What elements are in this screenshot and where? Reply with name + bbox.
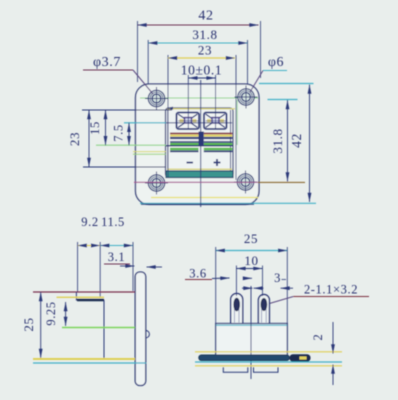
body top line maroon bbox=[33, 291, 135, 293]
svg-text:31.8: 31.8 bbox=[270, 128, 285, 153]
ext vertical 133 bbox=[132, 242, 134, 291]
svg-text:3.1: 3.1 bbox=[108, 250, 125, 264]
pin centerline 1 bbox=[235, 266, 237, 297]
dimension 31.8 right bbox=[270, 100, 288, 182]
ext vertical pin left center bbox=[187, 75, 189, 129]
ext vertical 77.6 bbox=[77, 242, 79, 292]
underline 2-1.1x3.2 bbox=[293, 296, 369, 298]
ext vertical pin right center bbox=[215, 75, 217, 129]
side plate bbox=[135, 272, 146, 386]
svg-text:9.25: 9.25 bbox=[44, 301, 58, 325]
rear box bottom dark bar bbox=[77, 299, 104, 302]
plate bottom edge bbox=[141, 203, 254, 205]
right cyan ext line plate top bbox=[259, 83, 314, 85]
arrow to plate right face bbox=[147, 266, 163, 268]
svg-text:7.5: 7.5 bbox=[112, 124, 126, 141]
svg-text:2-1.1×3.2: 2-1.1×3.2 bbox=[304, 283, 358, 297]
ext vertical body left bbox=[215, 247, 217, 324]
body box bbox=[216, 324, 288, 356]
plate outline bbox=[136, 84, 260, 205]
line through terminal centers bbox=[166, 122, 232, 124]
arrow pair at 288 bbox=[242, 287, 253, 289]
flange body bbox=[199, 355, 289, 361]
cyan ext line plate bottom bbox=[140, 202, 316, 204]
cyan line under body top bbox=[216, 324, 287, 326]
dimension 42 right bbox=[289, 85, 310, 203]
arrow at right 288 bbox=[281, 287, 294, 289]
svg-text:25: 25 bbox=[244, 231, 258, 246]
left ext line bottom (y167) bbox=[83, 166, 166, 168]
pin 2 lug bbox=[258, 295, 269, 324]
yellow dot in blob bbox=[300, 357, 307, 360]
underline 3.6 bbox=[185, 279, 212, 281]
svg-text:10: 10 bbox=[244, 253, 258, 268]
dimension 15 left bbox=[88, 110, 106, 145]
block top yellow tint bbox=[167, 108, 235, 110]
svg-text:3.6: 3.6 bbox=[189, 267, 206, 281]
terminal center horizontal ticks bbox=[178, 120, 198, 122]
dimension 2 bbox=[311, 322, 333, 385]
svg-text:31.8: 31.8 bbox=[192, 27, 217, 42]
dimension 10 +/- 0.1 bbox=[181, 63, 222, 79]
yellow line above bottom bar bbox=[167, 168, 232, 170]
svg-text:2: 2 bbox=[311, 334, 325, 341]
dimension line 10 bbox=[236, 268, 262, 270]
terminal clip right bbox=[204, 113, 227, 130]
svg-text:42: 42 bbox=[198, 9, 213, 24]
green ext line mid bbox=[96, 144, 166, 146]
yellow-green small ext lines bbox=[133, 151, 166, 153]
vertical centerline of top view bbox=[200, 80, 202, 207]
pin centerline 2 bbox=[262, 266, 264, 297]
svg-text:15: 15 bbox=[88, 121, 102, 135]
svg-text:10±0.1: 10±0.1 bbox=[181, 63, 222, 78]
green mid line bbox=[62, 327, 135, 329]
plate bump bbox=[146, 331, 150, 338]
svg-text:25: 25 bbox=[21, 317, 36, 331]
ext vertical 23 left bbox=[167, 55, 169, 177]
ext vertical 100.2 bbox=[99, 242, 101, 298]
dimension 7.5 left bbox=[112, 123, 130, 145]
ext vertical body right bbox=[286, 247, 288, 324]
yellow line above bottom screws bbox=[151, 197, 258, 199]
svg-text:11.5: 11.5 bbox=[101, 215, 125, 229]
ext vertical 23 right bbox=[235, 55, 237, 180]
dimension 9.25 bbox=[44, 301, 66, 326]
center vertical line bbox=[250, 286, 252, 379]
arrow to plate left face bbox=[120, 265, 135, 267]
magenta line through bottom screws bbox=[134, 181, 258, 183]
svg-text:23: 23 bbox=[67, 132, 82, 146]
block bottom bar bbox=[166, 171, 233, 178]
center dark column bbox=[199, 132, 204, 147]
screw hole TL bbox=[145, 87, 168, 110]
foot right bbox=[254, 367, 279, 372]
cyan line through flange bbox=[195, 361, 342, 363]
foot left bbox=[223, 367, 248, 372]
body bottom cyan line bbox=[33, 362, 146, 364]
dimension line 11.5 bbox=[100, 245, 133, 247]
screw hole BR bbox=[234, 171, 257, 194]
screw hole TR bbox=[235, 86, 258, 109]
small arrow at block top left bbox=[167, 107, 174, 110]
dimension line 25 bbox=[216, 250, 288, 252]
rear box yellow line bbox=[57, 296, 105, 298]
front box left edge bbox=[103, 300, 105, 360]
dimension 23 left bbox=[67, 110, 89, 167]
block right 3d edge bbox=[230, 110, 232, 172]
dimension 42 top bbox=[138, 9, 261, 83]
label phi 3.7 bbox=[83, 55, 153, 94]
label phi 6 bbox=[250, 55, 287, 92]
rear box left edge bbox=[75, 292, 77, 301]
arrow 3.6 to pin bbox=[212, 277, 230, 280]
dimension 31.8 top bbox=[148, 27, 247, 84]
spring stripes left stack bbox=[170, 133, 199, 153]
svg-text:φ3.7: φ3.7 bbox=[93, 55, 121, 70]
spring stripes right stack bbox=[204, 133, 233, 153]
terminal clip left bbox=[177, 113, 200, 130]
dimension 25 left bbox=[21, 292, 41, 358]
small ext mark near 3 bbox=[282, 279, 287, 281]
left ext line top (y110) bbox=[82, 109, 172, 111]
block mid line bbox=[166, 145, 233, 147]
dimension line 9.2 bbox=[78, 245, 101, 247]
dimension 23 top bbox=[168, 43, 235, 59]
screw hole BL bbox=[145, 172, 168, 195]
flange yellow top line bbox=[195, 351, 342, 353]
block left inner edge bbox=[167, 110, 169, 172]
leader to pin hole bbox=[266, 297, 293, 305]
svg-text:3: 3 bbox=[274, 271, 281, 285]
right cyan ext line screw center bbox=[268, 99, 298, 101]
green line through top screws bbox=[140, 97, 258, 99]
cyan ext of terminal center line bbox=[124, 122, 166, 124]
svg-text:9.2: 9.2 bbox=[81, 215, 98, 229]
svg-text:42: 42 bbox=[289, 133, 304, 148]
mid arrow right pointing bbox=[243, 277, 252, 279]
right brown ext line bbox=[258, 181, 305, 183]
body bottom yellow line bbox=[33, 358, 135, 360]
svg-text:23: 23 bbox=[198, 43, 212, 58]
underline 3.1 bbox=[104, 263, 130, 265]
terminal block outline bbox=[166, 108, 234, 177]
green tint on right ext bbox=[236, 100, 238, 145]
minus symbol bbox=[187, 162, 194, 164]
solder lug dark blob bbox=[290, 354, 311, 361]
yellow line under flange bbox=[195, 365, 342, 367]
svg-text:φ6: φ6 bbox=[268, 55, 284, 70]
pin 1 lug bbox=[231, 294, 243, 324]
plus symbol bbox=[214, 159, 221, 166]
